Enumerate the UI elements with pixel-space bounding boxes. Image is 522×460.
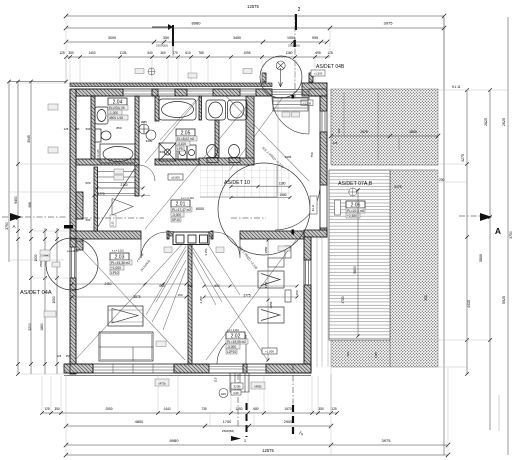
corridor door swing (139, 165, 155, 181)
bath 2.05 washer dryer (178, 145, 196, 160)
interior dim lines (71, 283, 299, 299)
svg-text:360: 360 (160, 51, 166, 55)
bottom wall segment a (64, 364, 93, 373)
svg-text:+1,500: +1,500 (314, 72, 323, 76)
stair rotated boxed label (110, 215, 116, 227)
dimension line top row3 (66, 41, 327, 43)
window top 1 (123, 89, 152, 96)
dimension line bottom 8980 3975 (66, 444, 448, 446)
interior thin wall vertical center (188, 245, 192, 365)
svg-text:1440: 1440 (163, 407, 170, 411)
svg-text:6000: 6000 (196, 207, 204, 211)
svg-text:968: 968 (28, 202, 32, 208)
svg-text:1770: 1770 (97, 192, 104, 196)
svg-text:475: 475 (72, 288, 77, 292)
svg-text:125: 125 (59, 51, 65, 55)
svg-text:695: 695 (315, 51, 321, 55)
svg-text:2200: 2200 (146, 139, 153, 143)
main interior wall horizontal (70, 231, 141, 239)
small boxed labels bottom exterior (155, 377, 265, 397)
bath 2.05 shower tray (159, 143, 176, 161)
svg-text:323B: 323B (233, 385, 240, 389)
svg-text:300: 300 (424, 295, 428, 301)
interior wall corridor stub (155, 96, 159, 121)
dimension line bottom small row (42, 412, 337, 414)
terrace door label box (335, 200, 341, 215)
right wall upper segment a (320, 96, 327, 111)
svg-text:AS/DET 10: AS/DET 10 (224, 180, 250, 186)
window bottom 2 (247, 367, 266, 370)
svg-text:125: 125 (44, 407, 50, 411)
svg-text:350: 350 (75, 127, 80, 131)
floor drain symbols corridor (139, 124, 156, 140)
svg-text:-3,000: -3,000 (227, 345, 236, 349)
svg-text:1135: 1135 (120, 51, 127, 55)
level marker hall (168, 174, 183, 180)
section marker A left (10, 213, 22, 229)
detail circle AS/DET 04A (46, 238, 98, 290)
svg-text:350: 350 (54, 407, 60, 411)
svg-text:1180: 1180 (279, 182, 286, 186)
svg-text:s.v.= 2,110: s.v.= 2,110 (112, 250, 125, 253)
svg-text:s.v.= 2,110: s.v.= 2,110 (227, 329, 240, 332)
window top 2 (158, 91, 175, 94)
left dimension header line (9, 81, 66, 83)
svg-text:500: 500 (187, 284, 193, 288)
room label 2.04 (108, 98, 128, 120)
svg-text:-1,000: -1,000 (109, 111, 118, 115)
svg-text:4700: 4700 (341, 296, 345, 303)
svg-text:470: 470 (172, 51, 178, 55)
svg-text:s+n+2/100: s+n+2/100 (67, 250, 79, 253)
svg-text:K1.11: K1.11 (311, 204, 315, 211)
bath 2.04 bathtub (100, 144, 135, 163)
svg-text:125: 125 (64, 127, 69, 131)
stair boxed labels (114, 169, 124, 180)
room label 2.05 (176, 129, 197, 151)
top wall segment e (309, 89, 320, 96)
vestibule wall stubs (169, 232, 213, 237)
entry exterior steps slab (272, 90, 309, 98)
terrace dim line (331, 135, 438, 137)
interior dimension texts (64, 126, 314, 308)
section line 1 bottom dash (173, 46, 238, 428)
svg-text:1250: 1250 (235, 407, 242, 411)
svg-text:8980: 8980 (170, 438, 180, 443)
left dims (5, 135, 56, 331)
svg-text:154: 154 (177, 293, 182, 297)
svg-text:4350: 4350 (264, 281, 268, 288)
terrace circle symbol (349, 188, 357, 196)
svg-text:540: 540 (147, 51, 153, 55)
svg-text:735: 735 (201, 407, 207, 411)
bottom extension lines (42, 368, 448, 455)
section 2 tick above entry (294, 40, 296, 47)
section line 1 mast top (152, 24, 173, 46)
bath 2.05 bathtub (159, 99, 196, 120)
staircase break line (97, 168, 135, 228)
door swing room 2.02 (214, 232, 240, 258)
svg-text:AS/DET 04B: AS/DET 04B (316, 64, 345, 70)
svg-text:1920: 1920 (34, 254, 38, 261)
svg-text:1670: 1670 (284, 407, 291, 411)
svg-text:500: 500 (160, 150, 165, 154)
svg-text:3090: 3090 (108, 36, 116, 40)
room 2.03 desk (108, 306, 143, 326)
svg-text:2.06: 2.06 (351, 202, 361, 208)
svg-text:850: 850 (116, 126, 121, 130)
right dims (461, 118, 513, 308)
entry door swing into hall (272, 97, 309, 134)
svg-text:1700: 1700 (223, 420, 231, 424)
window left room 2.03 (72, 247, 75, 278)
svg-text:1975: 1975 (360, 130, 368, 134)
svg-text:3975: 3975 (382, 438, 392, 443)
detail circle AS/DET 04B (260, 56, 302, 98)
vertical dim line room 2.02 (267, 239, 270, 362)
projection diagonal lines room 2.02 (193, 240, 296, 361)
svg-text:3200: 3200 (28, 323, 32, 331)
svg-text:LP5: LP5 (177, 147, 183, 151)
svg-text:5800: 5800 (479, 254, 483, 262)
interior wall bath bottom mid (155, 159, 199, 165)
interior wall bath bottom left (76, 159, 139, 165)
boxed labels in hall right (310, 196, 317, 214)
svg-text:2050: 2050 (105, 407, 112, 411)
svg-text:A: A (495, 226, 501, 236)
svg-text:5800: 5800 (353, 266, 357, 274)
small box near wall 2.03 (156, 341, 166, 347)
svg-text:4800: 4800 (135, 420, 143, 424)
right wall lower segment b (304, 285, 311, 373)
dimension line top 8980 and 3975 (66, 27, 444, 29)
right wall upper segment b (320, 132, 327, 185)
bath 2.04 toilet (95, 129, 111, 142)
svg-text:sv.=1,125: sv.=1,125 (96, 149, 100, 161)
dimension line top row4 (66, 56, 330, 58)
svg-text:125: 125 (333, 141, 338, 145)
section A thick dash at wall (64, 225, 73, 229)
left dimension verticals (9, 82, 57, 375)
interior wall stair hall right (135, 165, 139, 196)
svg-text:12575: 12575 (247, 4, 259, 9)
window top 3 (187, 91, 213, 94)
misc light verticals bottom right (331, 374, 499, 431)
svg-text:(495): (495) (254, 385, 261, 389)
porch side wall stubs (262, 73, 266, 82)
terrace door swing (275, 185, 320, 230)
svg-text:3275: 3275 (461, 154, 465, 162)
svg-text:2500(BJ): 2500(BJ) (156, 44, 168, 48)
svg-text:1050: 1050 (52, 296, 56, 303)
stair hall wall vertical (94, 167, 98, 231)
room 2.02 shelf (268, 258, 284, 267)
svg-text:125: 125 (57, 354, 62, 358)
svg-text:PL=22,0 m2: PL=22,0 m2 (347, 209, 365, 213)
svg-text:500: 500 (85, 181, 90, 185)
section 2 thick dash at walls (292, 230, 295, 235)
landing edge line (200, 166, 277, 197)
section marker 1 bottom (231, 403, 247, 443)
svg-text:E03: E03 (221, 392, 226, 396)
projection diagonal lines room 2.03 (74, 240, 222, 360)
right wall doorway jamb (320, 228, 327, 237)
svg-text:3475: 3475 (394, 185, 402, 189)
left extension lines (8, 83, 70, 374)
svg-text:3750: 3750 (5, 222, 9, 230)
right extension lines (327, 90, 508, 367)
svg-text:750: 750 (310, 152, 314, 157)
svg-text:K1.11: K1.11 (452, 85, 461, 89)
entry exterior light symbol (276, 61, 285, 70)
landing tiled floor (200, 166, 290, 197)
step wall right (304, 230, 327, 237)
svg-text:1980: 1980 (279, 193, 286, 197)
walkway strip beside house (317, 237, 328, 367)
svg-text:1860: 1860 (40, 323, 44, 331)
level marker room 2.02 (262, 348, 277, 354)
svg-text:1800: 1800 (409, 130, 417, 134)
svg-text:1050: 1050 (287, 36, 295, 40)
svg-text:2500(BJ): 2500(BJ) (222, 429, 234, 433)
svg-text:ELV/DU 06: ELV/DU 06 (109, 106, 125, 110)
terrace extension verticals (331, 89, 399, 164)
svg-text:3450: 3450 (233, 36, 241, 40)
svg-text:1160: 1160 (286, 51, 293, 55)
svg-text:115: 115 (214, 377, 218, 382)
bath 2.04 sink (95, 107, 108, 124)
interior wall landing top (199, 158, 254, 165)
twin sinks (206, 100, 247, 120)
top wall segment b (152, 89, 158, 96)
interior wall wc left (215, 120, 219, 160)
top wall segment d2 (256, 89, 272, 96)
left small boxed labels (40, 104, 60, 317)
svg-text:(470): (470) (158, 382, 165, 386)
window right upper (322, 111, 325, 132)
top extension lines (66, 17, 444, 90)
top wall segment c (175, 89, 187, 96)
svg-text:4500 L/16: 4500 L/16 (109, 116, 123, 120)
svg-text:350: 350 (163, 36, 169, 40)
svg-text:L2P10: L2P10 (227, 350, 236, 354)
svg-text:785: 785 (198, 51, 204, 55)
svg-text:LP10: LP10 (111, 271, 119, 275)
decking vertical dim (353, 188, 360, 337)
svg-text:2.04: 2.04 (113, 99, 123, 105)
svg-text:2: 2 (298, 7, 301, 13)
svg-text:3545: 3545 (27, 135, 31, 143)
projection diagonal lines hall (145, 89, 309, 229)
main interior wall horizontal c (240, 231, 304, 239)
svg-text:200: 200 (439, 178, 445, 182)
bottom wall segment d (266, 364, 311, 373)
svg-text:SP10: SP10 (172, 218, 180, 222)
svg-text:2500(BJ): 2500(BJ) (288, 44, 300, 48)
room 2.03 pier (76, 241, 83, 250)
svg-text:+2,380: +2,380 (347, 214, 357, 218)
svg-text:s.v.= 2,110: s.v.= 2,110 (181, 196, 194, 200)
svg-text:350: 350 (68, 51, 74, 55)
wc toilet and bidet (207, 145, 241, 163)
svg-text:3975: 3975 (384, 21, 394, 26)
left wall lower (70, 278, 76, 374)
svg-text:PL=17,47 m2: PL=17,47 m2 (172, 208, 191, 212)
svg-text:300: 300 (346, 351, 350, 356)
bath 2.05 diagonal (160, 100, 196, 140)
svg-text:2,06: 2,06 (233, 391, 239, 395)
door frame boxes vestibule (164, 247, 224, 253)
svg-text:PL=15,95 m2: PL=15,95 m2 (227, 340, 246, 344)
svg-text:500: 500 (86, 127, 91, 131)
svg-text:4258: 4258 (269, 301, 273, 308)
terrace boundary line (331, 165, 438, 170)
dimension line top 12575 (66, 15, 444, 17)
exterior insulation band top (70, 83, 272, 87)
svg-text:2.03: 2.03 (115, 254, 125, 260)
room 2.02 desk 2 (258, 307, 284, 323)
pier on left wall (76, 192, 83, 219)
svg-text:2100: 2100 (120, 183, 127, 187)
interior wall thick wc (246, 96, 254, 163)
bottom wall segment c (243, 364, 247, 373)
svg-text:+1,000: +1,000 (111, 266, 121, 270)
svg-text:2.05: 2.05 (181, 130, 191, 136)
wall outline lines (64, 89, 327, 374)
svg-text:EL=8,02 m2: EL=8,02 m2 (177, 137, 195, 141)
entry interior steps (273, 98, 308, 111)
svg-text:PL=15,36 m2: PL=15,36 m2 (111, 261, 130, 265)
light vertical hall (277, 97, 279, 231)
right wall lower segment a (304, 237, 311, 260)
left wall upper (70, 89, 76, 247)
svg-text:610: 610 (185, 51, 191, 55)
svg-text:+1,000: +1,000 (265, 350, 274, 354)
exterior insulation band bottom (64, 375, 311, 377)
svg-text:1965: 1965 (285, 155, 292, 159)
detail circle AS/DET 10 (218, 163, 310, 255)
bottom door exterior steps (230, 373, 249, 392)
level box +1,500 hall (301, 100, 313, 106)
svg-text:±0,000: ±0,000 (171, 176, 180, 180)
svg-text:-3,100: -3,100 (177, 142, 186, 146)
stair dim lines (93, 187, 151, 198)
staircase direction chevron (112, 199, 133, 216)
section marker A right (480, 213, 501, 236)
window bottom 1 (93, 364, 174, 373)
section line 2 vertical (293, 14, 295, 405)
main interior wall horizontal b (167, 231, 169, 239)
svg-text:350: 350 (295, 290, 299, 295)
small boxes 2240 2230 (282, 112, 300, 117)
top wall segment f corner (302, 83, 327, 96)
room 2.02 small box label (278, 246, 290, 251)
room 2.02 side rects (285, 246, 291, 302)
terrace paving dotted strip below decking (331, 340, 390, 367)
landing dim lines (230, 185, 292, 199)
svg-text:4,256: 4,256 (204, 248, 208, 255)
door swing room 2.03 (141, 232, 167, 258)
top wall segment d (213, 89, 240, 96)
interior wall bath 2.04 right (135, 96, 139, 165)
svg-text:1,15: 1,15 (112, 221, 115, 226)
svg-text:2.02: 2.02 (231, 333, 241, 339)
room label 2.06 (346, 201, 365, 218)
bottom window mullion (113, 364, 153, 373)
svg-text:AS/DET 07A,B: AS/DET 07A,B (338, 181, 373, 187)
svg-text:120: 120 (337, 128, 341, 133)
section marker 2 bottom (293, 405, 306, 437)
bottom wall segment b (174, 364, 209, 373)
svg-text:Ø85: Ø85 (141, 120, 147, 124)
wooden decking room 2.06 (329, 170, 390, 340)
bottom door swing (217, 335, 246, 364)
main interior wall horizontal b2 (211, 231, 213, 239)
entry leader arrow (279, 68, 283, 87)
svg-text:1400: 1400 (88, 51, 95, 55)
svg-text:4,258: 4,258 (199, 296, 203, 303)
svg-text:-3,000: -3,000 (172, 213, 181, 217)
svg-text:3750: 3750 (509, 231, 513, 239)
svg-text:125: 125 (331, 407, 337, 411)
dimension line bottom row2 (66, 425, 331, 427)
svg-text:500: 500 (86, 218, 91, 222)
svg-text:1125: 1125 (374, 352, 378, 358)
dimension line bottom 12575 (66, 454, 448, 456)
vestibule closet (173, 232, 209, 245)
bottom door threshold (209, 367, 243, 370)
room 2.03 bed (99, 332, 153, 361)
svg-text:2.01: 2.01 (176, 201, 186, 207)
svg-text:AS/DET 04A: AS/DET 04A (20, 290, 52, 296)
svg-text:5925: 5925 (502, 296, 506, 304)
svg-text:1095: 1095 (243, 51, 250, 55)
small boxed labels top (135, 68, 325, 78)
svg-text:8980: 8980 (192, 21, 202, 26)
svg-text:995: 995 (312, 36, 318, 40)
svg-text:2825: 2825 (484, 118, 488, 126)
window top 4 (240, 91, 256, 94)
svg-text:12575: 12575 (262, 448, 274, 453)
interior wall bath 2.05 right stub (199, 96, 202, 120)
terrace paving dotted area right of decking (390, 170, 438, 367)
svg-text:350: 350 (318, 407, 324, 411)
section marker 2 top (296, 7, 301, 30)
top wall segment a (76, 89, 123, 96)
svg-text:2900: 2900 (284, 420, 292, 424)
svg-text:9450: 9450 (14, 196, 18, 204)
svg-text:2625: 2625 (502, 118, 506, 126)
svg-text:3850: 3850 (264, 246, 268, 253)
staircase treads (98, 172, 136, 194)
window right lower (306, 260, 309, 285)
interior wall bath 2.04 left (91, 96, 95, 165)
svg-text:680: 680 (253, 407, 259, 411)
svg-text:A: A (12, 224, 15, 229)
section line A horizontal (2, 216, 490, 218)
svg-text:4415: 4415 (467, 300, 471, 308)
right dimension verticals (444, 17, 508, 455)
room 2.02 desk 1 (258, 271, 284, 288)
terrace paving dotted area upper (331, 89, 438, 165)
